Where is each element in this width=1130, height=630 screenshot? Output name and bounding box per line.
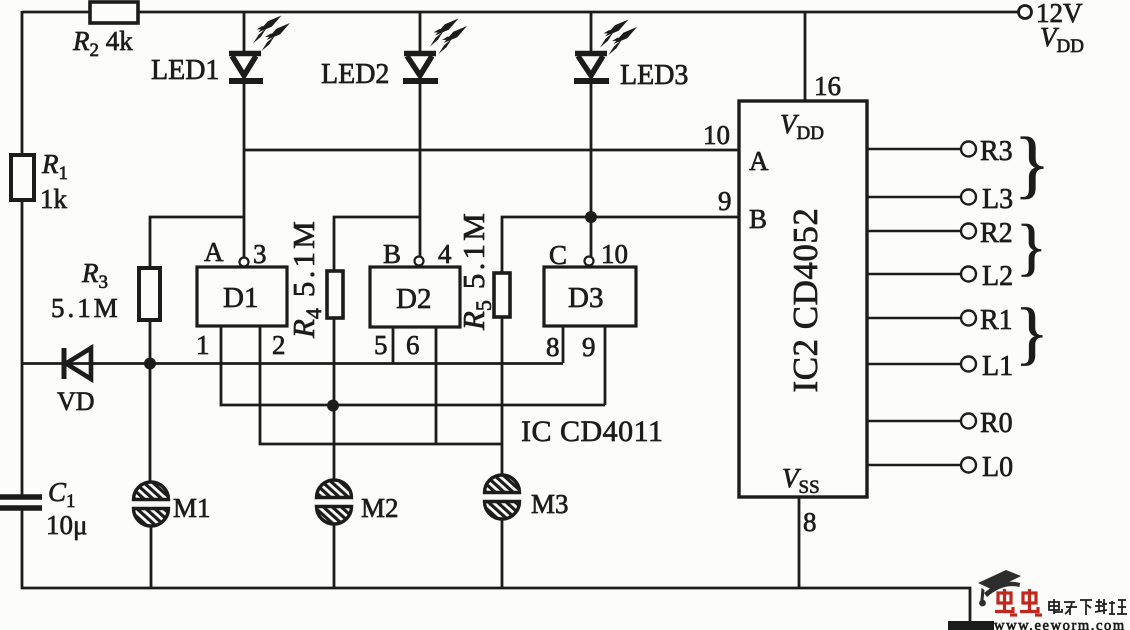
logo black chinese text dianzi xiazaizhan	[1049, 599, 1127, 615]
svg-text:R4 5.1M: R4 5.1M	[286, 218, 326, 339]
wire D1 top (R3 to pin3)	[150, 217, 244, 268]
svg-text:10μ: 10μ	[46, 510, 87, 540]
microphone M2	[317, 480, 352, 524]
wire D2 top (R4 to pin4)	[334, 217, 420, 271]
wire M2 bottom	[333, 524, 336, 589]
svg-text:D1: D1	[223, 282, 258, 314]
microphone M1	[134, 482, 169, 526]
wire pin5 D2	[392, 327, 395, 363]
svg-text:IC2 CD4052: IC2 CD4052	[786, 208, 825, 393]
svg-text:B: B	[749, 204, 767, 234]
svg-text:M3: M3	[531, 489, 569, 519]
wire R4 bottom to M2	[333, 318, 336, 481]
wire D3 top (R5 to pin10 to IC2 pinB)	[502, 217, 739, 273]
svg-text:IC CD4011: IC CD4011	[521, 415, 664, 448]
svg-text:9: 9	[718, 186, 732, 216]
LED1	[229, 11, 263, 258]
wire pin6 D2	[435, 327, 438, 444]
node dot VD junction	[144, 358, 156, 370]
wire node A horizontal to IC2 pin10	[244, 149, 739, 152]
svg-text:9: 9	[582, 332, 596, 362]
wire left rail middle	[21, 200, 24, 496]
svg-text:}: }	[1016, 211, 1047, 282]
svg-text:LED1: LED1	[151, 55, 219, 86]
gate D1	[197, 267, 287, 326]
svg-text:R3: R3	[980, 136, 1013, 167]
svg-text:R3: R3	[81, 258, 108, 293]
svg-text:R2: R2	[980, 218, 1013, 249]
diode VD	[64, 348, 91, 379]
wire R3 bottom to M1	[149, 320, 152, 483]
svg-text:10: 10	[601, 239, 628, 269]
wire VD horizontal	[22, 362, 563, 365]
resistor R4	[327, 271, 343, 318]
IC2 output L3	[867, 190, 976, 205]
resistor R5	[494, 273, 510, 317]
LED3	[574, 11, 609, 258]
svg-text:6: 6	[406, 330, 420, 360]
svg-text:8: 8	[803, 507, 817, 537]
svg-text:D3: D3	[568, 282, 603, 314]
IC2 output L0	[867, 458, 976, 473]
IC2 output L1	[867, 357, 976, 372]
wire pin8 D3	[562, 326, 565, 363]
resistor R3	[139, 268, 160, 320]
svg-text:L3: L3	[982, 184, 1013, 215]
ground symbol	[948, 621, 994, 630]
svg-text:LED3: LED3	[620, 60, 688, 91]
wire left rail lower	[21, 508, 24, 589]
node dot wire2 R4	[327, 400, 339, 412]
wire pin9 D3	[604, 326, 607, 405]
LED3 arrows	[600, 20, 637, 56]
svg-text:www.eeworm.com: www.eeworm.com	[994, 618, 1126, 630]
wire M1 bottom	[150, 526, 153, 589]
svg-text:R0: R0	[980, 408, 1013, 439]
gate D2	[370, 267, 460, 327]
node dot B junction	[585, 211, 597, 223]
wire bottom ground rail	[21, 588, 970, 622]
logo chongchong red characters	[995, 589, 1042, 615]
svg-text:5: 5	[374, 330, 388, 360]
IC2 output R3	[867, 142, 976, 157]
IC2 output R0	[867, 414, 976, 429]
pin3 bubble D1	[240, 258, 249, 267]
svg-text:C1: C1	[48, 477, 76, 512]
svg-text:R5 5.1M: R5 5.1M	[456, 210, 496, 331]
wire pin8 IC2	[798, 497, 801, 588]
svg-text:R1: R1	[41, 149, 68, 184]
svg-text:5.1M: 5.1M	[51, 293, 121, 323]
svg-text:4: 4	[438, 239, 452, 269]
IC2 output L2	[867, 267, 976, 282]
capacitor C1	[0, 497, 42, 508]
wire R5 bottom to M3	[501, 317, 504, 477]
svg-text:R1: R1	[980, 305, 1013, 336]
resistor R2	[90, 2, 138, 23]
pin10 bubble D3	[585, 257, 594, 266]
wire pin2 D1	[260, 326, 502, 444]
wire M3 bottom	[501, 519, 504, 589]
svg-text:A: A	[749, 146, 769, 176]
wire pin16	[804, 12, 807, 101]
LED1 arrows	[253, 16, 290, 52]
svg-text:L0: L0	[982, 452, 1013, 483]
wire left rail upper	[21, 11, 24, 156]
svg-text:10: 10	[703, 120, 730, 150]
resistor R1	[11, 155, 34, 200]
svg-text:L2: L2	[982, 261, 1013, 292]
logo graduation cap	[978, 570, 1021, 606]
terminal 12V	[1019, 6, 1032, 19]
svg-text:}: }	[1014, 123, 1050, 206]
svg-text:VDD: VDD	[780, 109, 824, 144]
svg-text:C: C	[549, 240, 567, 270]
svg-text:M2: M2	[361, 493, 399, 523]
svg-text:16: 16	[814, 71, 841, 101]
svg-text:1k: 1k	[40, 184, 68, 214]
IC2 output R2	[867, 224, 976, 239]
microphone M3	[485, 475, 520, 519]
svg-text:2: 2	[272, 330, 286, 360]
pin4 bubble D2	[415, 257, 424, 266]
gate D3	[544, 267, 636, 326]
wire top +12V rail	[22, 11, 1018, 14]
svg-text:D2: D2	[396, 283, 431, 315]
IC2 CD4052 box	[739, 101, 867, 497]
svg-text:1: 1	[196, 330, 210, 360]
svg-text:}: }	[1015, 295, 1049, 372]
LED2 arrows	[430, 19, 467, 55]
svg-text:VSS: VSS	[782, 463, 820, 498]
svg-text:L1: L1	[982, 351, 1013, 382]
svg-text:B: B	[383, 239, 401, 269]
svg-text:A: A	[204, 237, 224, 267]
svg-text:VD: VD	[57, 387, 95, 416]
wire pin1 D1	[221, 326, 605, 405]
svg-text:M1: M1	[173, 493, 211, 523]
LED2	[403, 11, 438, 256]
IC2 output R1	[867, 311, 976, 326]
svg-text:8: 8	[546, 332, 560, 362]
svg-text:R2 4k: R2 4k	[72, 26, 133, 61]
svg-text:LED2: LED2	[321, 59, 389, 90]
svg-text:3: 3	[253, 239, 267, 269]
